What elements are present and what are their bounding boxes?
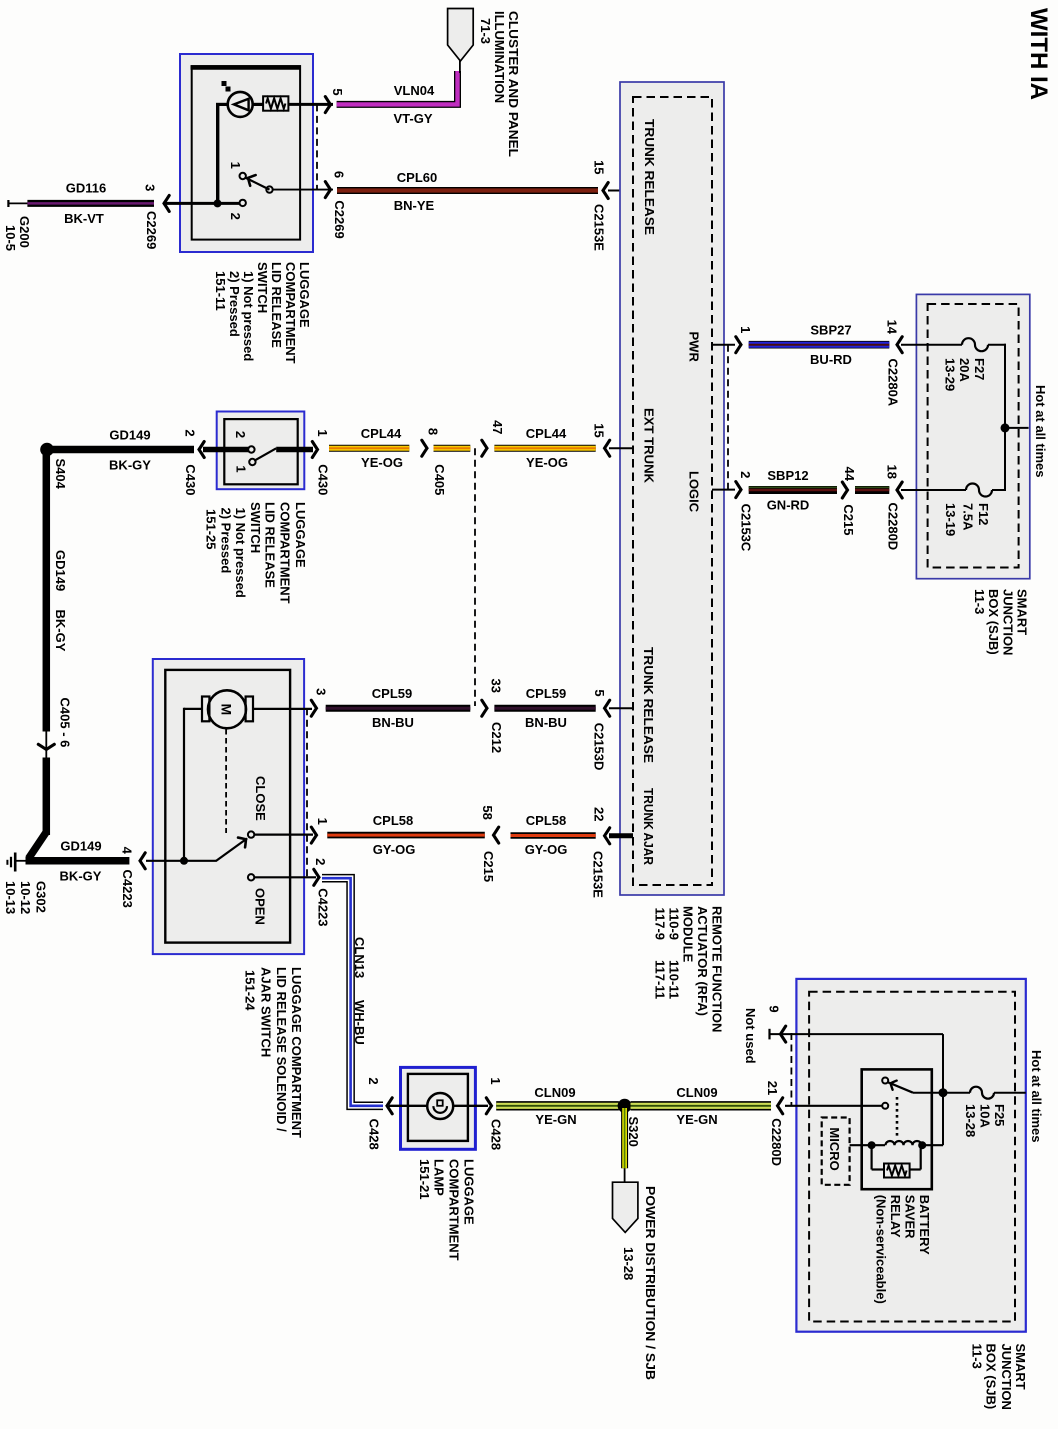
svg-text:C2280D: C2280D bbox=[886, 503, 901, 551]
connector C2280D dashed line bbox=[790, 1033, 792, 1105]
svg-text:2) Pressed: 2) Pressed bbox=[219, 508, 234, 574]
svg-text:TRUNK RELEASE: TRUNK RELEASE bbox=[641, 647, 656, 763]
fuse F12 bbox=[966, 484, 992, 497]
svg-text:SMART: SMART bbox=[1015, 589, 1030, 635]
svg-text:C4223: C4223 bbox=[316, 888, 331, 926]
svg-text:GD149: GD149 bbox=[53, 550, 68, 591]
wire CPL44 YE-OG seg1 bbox=[329, 445, 409, 452]
svg-text:1) Not pressed: 1) Not pressed bbox=[241, 271, 256, 361]
svg-text:CLN09: CLN09 bbox=[676, 1085, 717, 1100]
ajar switch blade bbox=[216, 839, 247, 862]
svg-text:MICRO: MICRO bbox=[827, 1127, 842, 1170]
svg-text:G200: G200 bbox=[17, 216, 32, 248]
not used internal drop bbox=[942, 1034, 944, 1093]
svg-text:YE-OG: YE-OG bbox=[361, 455, 403, 470]
svg-text:BATTERY: BATTERY bbox=[917, 1195, 932, 1255]
contact pin 1 bbox=[249, 459, 255, 465]
svg-text:WITH IA: WITH IA bbox=[1025, 8, 1052, 100]
svg-text:GD116: GD116 bbox=[66, 181, 106, 196]
switch internal lead bbox=[203, 447, 249, 453]
svg-text:GY-OG: GY-OG bbox=[525, 842, 568, 857]
luggage compartment lamp box bbox=[401, 1067, 476, 1149]
svg-text:CPL44: CPL44 bbox=[361, 426, 402, 441]
svg-text:LUGGAGE COMPARTMENT: LUGGAGE COMPARTMENT bbox=[289, 967, 304, 1138]
svg-text:BK-GY: BK-GY bbox=[53, 610, 68, 652]
relay mechanical dotted link bbox=[896, 1097, 899, 1136]
svg-text:LAMP: LAMP bbox=[432, 1159, 447, 1196]
arrow pin 3 bbox=[164, 195, 169, 211]
wire CPL59 BN-BU seg2 bbox=[494, 705, 595, 712]
arrow C430 pin 1 bbox=[312, 442, 317, 458]
remote function actuator RFA module box bbox=[620, 82, 724, 895]
svg-text:BN-BU: BN-BU bbox=[372, 715, 414, 730]
svg-text:2) Pressed: 2) Pressed bbox=[227, 271, 242, 337]
arrow lamp pin 1 bbox=[486, 1098, 491, 1114]
motor M bbox=[184, 708, 203, 710]
svg-text:14: 14 bbox=[885, 320, 900, 335]
relay switched line bbox=[913, 1092, 970, 1094]
svg-text:VLN04: VLN04 bbox=[394, 83, 435, 98]
svg-text:2: 2 bbox=[228, 213, 243, 220]
svg-text:BN-BU: BN-BU bbox=[525, 715, 567, 730]
wire CLN09 YE-GN seg2 bbox=[631, 1101, 772, 1110]
svg-text:11-3: 11-3 bbox=[972, 589, 987, 614]
svg-text:C215: C215 bbox=[481, 851, 496, 882]
svg-text:GN-RD: GN-RD bbox=[767, 498, 810, 513]
svg-text:C2153C: C2153C bbox=[739, 504, 754, 552]
fuse F25 bbox=[970, 1087, 994, 1099]
svg-text:YE-GN: YE-GN bbox=[535, 1112, 576, 1127]
switch common pin 2 bbox=[163, 202, 240, 205]
svg-text:CPL60: CPL60 bbox=[397, 170, 437, 185]
off-page connector cluster illumination bbox=[459, 59, 461, 73]
wire CLN13 WH-BU bbox=[322, 878, 383, 1106]
svg-text:VT-GY: VT-GY bbox=[393, 111, 432, 126]
svg-text:1: 1 bbox=[315, 429, 330, 436]
svg-text:F25: F25 bbox=[992, 1104, 1007, 1126]
svg-text:110-9: 110-9 bbox=[667, 908, 682, 941]
svg-text:S320: S320 bbox=[626, 1117, 641, 1147]
arrow pin 6 bbox=[325, 182, 330, 198]
svg-text:CPL59: CPL59 bbox=[372, 686, 412, 701]
arrow solenoid pin 4 bbox=[140, 853, 145, 869]
svg-text:13-19: 13-19 bbox=[943, 503, 958, 536]
svg-text:EXT TRUNK: EXT TRUNK bbox=[642, 408, 657, 484]
junction S320 bbox=[618, 1099, 632, 1113]
arrow module pin 5 bbox=[605, 700, 610, 716]
wire internal lamp feed bbox=[216, 103, 219, 205]
switch contact pin 1 bbox=[240, 173, 246, 179]
svg-text:SBP12: SBP12 bbox=[767, 468, 808, 483]
svg-text:F27: F27 bbox=[972, 358, 987, 380]
arrow inline C215 pin 58 bbox=[494, 827, 499, 843]
svg-text:2: 2 bbox=[738, 471, 753, 478]
svg-text:LUGGAGE: LUGGAGE bbox=[293, 502, 308, 568]
svg-text:CPL59: CPL59 bbox=[526, 686, 566, 701]
svg-text:LID RELEASE: LID RELEASE bbox=[269, 262, 284, 348]
fuse F27 bbox=[962, 338, 988, 351]
wire GD116 bbox=[27, 200, 154, 207]
svg-text:C430: C430 bbox=[183, 464, 198, 495]
wire GD149 BK-GY top bbox=[46, 446, 194, 454]
svg-text:YE-OG: YE-OG bbox=[526, 455, 568, 470]
svg-text:151-21: 151-21 bbox=[417, 1159, 432, 1199]
inline connector C405 pin 6 arrow bbox=[38, 744, 54, 749]
svg-text:G302: G302 bbox=[34, 881, 49, 913]
arrow inline C212 pin 33 bbox=[482, 700, 487, 716]
wire SBP12 GN-RD seg1 bbox=[749, 486, 837, 494]
svg-text:GD149: GD149 bbox=[60, 839, 101, 854]
svg-text:151-25: 151-25 bbox=[204, 509, 219, 549]
svg-text:15: 15 bbox=[592, 160, 607, 174]
svg-text:C2280A: C2280A bbox=[886, 359, 901, 407]
smart junction box upper bbox=[916, 294, 1029, 578]
svg-text:CLOSE: CLOSE bbox=[253, 776, 268, 821]
svg-text:11-3: 11-3 bbox=[970, 1344, 985, 1369]
svg-text:71-3: 71-3 bbox=[478, 18, 493, 44]
wire SBP12 GN-RD seg2 bbox=[855, 486, 889, 494]
switch blade bbox=[245, 178, 270, 190]
relay suppression resistor bbox=[870, 1145, 872, 1169]
svg-text:COMPARTMENT: COMPARTMENT bbox=[447, 1159, 462, 1261]
svg-text:9: 9 bbox=[767, 1005, 782, 1012]
svg-text:GY-OG: GY-OG bbox=[373, 842, 416, 857]
svg-text:2: 2 bbox=[233, 431, 248, 438]
svg-text:C215: C215 bbox=[841, 504, 856, 535]
arrow SJB pin 21 bbox=[778, 1098, 783, 1114]
svg-text:C2153D: C2153D bbox=[592, 723, 607, 771]
svg-text:CPL44: CPL44 bbox=[526, 426, 567, 441]
svg-text:1: 1 bbox=[738, 326, 753, 333]
arrow SJB pin 14 bbox=[897, 337, 902, 353]
svg-text:151-24: 151-24 bbox=[243, 970, 258, 1011]
svg-text:C2280D: C2280D bbox=[769, 1118, 784, 1166]
module LOGIC pin 2 lead bbox=[712, 489, 735, 491]
battery saver relay box bbox=[862, 1069, 932, 1189]
svg-text:2: 2 bbox=[183, 429, 198, 436]
lamp symbol bbox=[427, 1093, 453, 1119]
fuse F27 lead bbox=[901, 344, 962, 346]
svg-text:JUNCTION: JUNCTION bbox=[999, 1344, 1014, 1410]
svg-text:C4223: C4223 bbox=[120, 870, 135, 908]
svg-text:Not used: Not used bbox=[743, 1008, 758, 1064]
svg-text:BK-VT: BK-VT bbox=[64, 211, 104, 226]
connector C2269 dashed line bbox=[316, 104, 318, 189]
svg-text:10-5: 10-5 bbox=[3, 225, 18, 251]
arrow lamp pin 2 bbox=[387, 1098, 392, 1114]
arrow solenoid pin 3 bbox=[311, 700, 316, 716]
solenoid common lead bbox=[146, 860, 217, 862]
smart junction box lower bbox=[796, 979, 1025, 1332]
svg-text:LID RELEASE SOLENOID /: LID RELEASE SOLENOID / bbox=[274, 967, 289, 1132]
arrow module pin 15 bbox=[603, 183, 608, 199]
wire CLN09 to power distribution bbox=[621, 1105, 628, 1168]
svg-text:TRUNK AJAR: TRUNK AJAR bbox=[641, 788, 656, 866]
svg-text:2: 2 bbox=[366, 1077, 381, 1084]
svg-text:13-28: 13-28 bbox=[621, 1247, 636, 1280]
arrow inline C215 pin 44 bbox=[842, 482, 847, 498]
svg-text:21: 21 bbox=[765, 1081, 780, 1095]
svg-text:RELAY: RELAY bbox=[888, 1195, 903, 1238]
wire lamp to pin 5 bbox=[288, 103, 333, 106]
arrow pin 47 bbox=[482, 440, 487, 456]
svg-text:SMART: SMART bbox=[1013, 1344, 1028, 1390]
svg-text:JUNCTION: JUNCTION bbox=[1001, 589, 1016, 655]
arrow C430 pin 2 bbox=[199, 442, 204, 458]
svg-text:18: 18 bbox=[885, 464, 900, 478]
svg-text:ACTUATOR (RFA): ACTUATOR (RFA) bbox=[695, 906, 710, 1016]
arrow pin 5 bbox=[325, 97, 330, 113]
svg-text:LUGGAGE: LUGGAGE bbox=[462, 1159, 477, 1225]
wire SBP27 BU-RD bbox=[749, 341, 890, 349]
svg-text:4: 4 bbox=[120, 847, 135, 855]
svg-text:CPL58: CPL58 bbox=[526, 813, 566, 828]
svg-text:C405: C405 bbox=[432, 464, 447, 495]
svg-text:C430: C430 bbox=[315, 464, 330, 495]
svg-text:C428: C428 bbox=[488, 1119, 503, 1150]
battery feed line bbox=[1004, 344, 1006, 491]
svg-text:C2153E: C2153E bbox=[591, 851, 606, 898]
switch blade C430 bbox=[255, 448, 276, 460]
svg-text:BOX (SJB): BOX (SJB) bbox=[986, 589, 1001, 655]
svg-text:F12: F12 bbox=[976, 503, 991, 525]
svg-text:MODULE: MODULE bbox=[681, 906, 696, 963]
svg-text:1) Not pressed: 1) Not pressed bbox=[233, 508, 248, 598]
svg-text:1: 1 bbox=[315, 818, 330, 825]
relay blade bbox=[888, 1082, 913, 1092]
ground G200 stub bbox=[7, 200, 9, 207]
mechanical link dashed bbox=[225, 729, 227, 833]
svg-text:COMPARTMENT: COMPARTMENT bbox=[278, 502, 293, 604]
arrow solenoid pin 1 bbox=[311, 827, 316, 843]
switch contact to pin 6 bbox=[266, 186, 272, 192]
svg-text:C405 - 6: C405 - 6 bbox=[58, 698, 73, 748]
relay output contact bbox=[882, 1103, 888, 1109]
svg-text:3: 3 bbox=[143, 184, 158, 191]
svg-text:C428: C428 bbox=[366, 1119, 381, 1150]
luggage compartment lid release switch box bbox=[180, 54, 313, 252]
off-page connector power distribution bbox=[613, 1182, 638, 1232]
svg-text:PWR: PWR bbox=[687, 332, 702, 363]
svg-text:5: 5 bbox=[592, 689, 607, 696]
svg-text:GD149: GD149 bbox=[109, 428, 150, 443]
svg-text:117-9: 117-9 bbox=[653, 908, 668, 941]
svg-text:Hot at all times: Hot at all times bbox=[1029, 1050, 1044, 1142]
wire CPL58 GY-OG seg2 bbox=[511, 832, 596, 839]
svg-text:C2269: C2269 bbox=[144, 211, 159, 249]
svg-text:(Non-serviceable): (Non-serviceable) bbox=[874, 1195, 889, 1304]
illumination lamp bbox=[228, 92, 253, 117]
svg-text:SBP27: SBP27 bbox=[810, 323, 851, 338]
svg-text:10-12: 10-12 bbox=[18, 881, 33, 914]
svg-text:117-11: 117-11 bbox=[653, 960, 668, 999]
svg-text:POWER DISTRIBUTION / SJB: POWER DISTRIBUTION / SJB bbox=[643, 1186, 658, 1380]
svg-text:AJAR SWITCH: AJAR SWITCH bbox=[259, 967, 274, 1057]
svg-text:47: 47 bbox=[490, 420, 505, 434]
relay coil bbox=[850, 1144, 885, 1146]
arrow solenoid pin 2 bbox=[314, 869, 319, 885]
svg-text:44: 44 bbox=[842, 466, 857, 481]
svg-text:1: 1 bbox=[234, 465, 249, 472]
wire CPL58 GY-OG seg1 bbox=[327, 832, 485, 839]
fuse F12 lead bbox=[901, 489, 966, 491]
wire GD149 BK-GY bottom bbox=[26, 857, 130, 865]
svg-text:COMPARTMENT: COMPARTMENT bbox=[283, 262, 298, 364]
ground G302 bbox=[14, 853, 17, 872]
svg-text:BK-GY: BK-GY bbox=[60, 869, 102, 884]
arrow module pin 15 ext trunk bbox=[605, 440, 610, 456]
wire GD149 vertical upper bbox=[43, 452, 51, 732]
svg-text:2: 2 bbox=[313, 858, 328, 865]
svg-text:33: 33 bbox=[488, 678, 503, 692]
wire VLN04 VT-GY bbox=[337, 71, 458, 104]
svg-text:C2153E: C2153E bbox=[592, 204, 607, 251]
svg-text:58: 58 bbox=[480, 805, 495, 819]
svg-text:CPL58: CPL58 bbox=[373, 813, 413, 828]
svg-text:LOGIC: LOGIC bbox=[687, 471, 702, 513]
svg-text:LUGGAGE: LUGGAGE bbox=[297, 262, 312, 328]
svg-text:SWITCH: SWITCH bbox=[248, 502, 263, 553]
svg-text:1: 1 bbox=[488, 1077, 503, 1084]
module PWR pin 1 lead bbox=[712, 344, 735, 346]
not used pin 9 bbox=[768, 1029, 770, 1040]
connector C4223 dashed line bbox=[306, 708, 308, 877]
svg-text:BOX (SJB): BOX (SJB) bbox=[984, 1344, 999, 1410]
svg-text:6: 6 bbox=[332, 171, 347, 178]
svg-text:REMOTE FUNCTION: REMOTE FUNCTION bbox=[710, 906, 725, 1032]
motor return lead bbox=[183, 708, 185, 861]
svg-text:SAVER: SAVER bbox=[903, 1195, 918, 1239]
svg-text:15: 15 bbox=[592, 423, 607, 437]
wire CPL59 BN-BU seg1 bbox=[326, 705, 471, 712]
wire CLN09 YE-GN seg1 bbox=[496, 1101, 619, 1110]
svg-text:SWITCH: SWITCH bbox=[255, 262, 270, 313]
arrow module pin 22 bbox=[605, 828, 610, 844]
connector C2153C dashed line bbox=[727, 345, 729, 490]
svg-text:22: 22 bbox=[592, 807, 607, 821]
luggage compartment lid release switch box 151-25 bbox=[217, 412, 305, 490]
wire GD149 vertical lower bbox=[43, 758, 51, 836]
svg-text:BN-YE: BN-YE bbox=[394, 198, 435, 213]
contact CLOSE bbox=[248, 831, 254, 837]
svg-text:BK-GY: BK-GY bbox=[109, 458, 151, 473]
svg-text:WH-BU: WH-BU bbox=[352, 1000, 367, 1045]
svg-text:3: 3 bbox=[314, 688, 329, 695]
junction S404 bbox=[40, 443, 54, 457]
resistor in switch bbox=[252, 103, 263, 106]
svg-text:10A: 10A bbox=[978, 1104, 993, 1128]
svg-text:C212: C212 bbox=[489, 722, 504, 753]
svg-text:CLN09: CLN09 bbox=[534, 1085, 575, 1100]
svg-text:S404: S404 bbox=[53, 459, 68, 490]
svg-text:151-11: 151-11 bbox=[213, 271, 228, 311]
wire CPL44 YE-OG seg3 bbox=[494, 445, 595, 452]
svg-text:YE-GN: YE-GN bbox=[676, 1112, 717, 1127]
wire CPL60 BN-YE bbox=[337, 187, 598, 194]
dashed inline connector line C405-C212 bbox=[474, 448, 476, 706]
wire CPL44 YE-OG seg2 bbox=[434, 445, 471, 452]
svg-text:20A: 20A bbox=[957, 358, 972, 382]
svg-text:OPEN: OPEN bbox=[253, 888, 268, 925]
svg-text:ILLUMINATION: ILLUMINATION bbox=[492, 11, 507, 103]
relay switch pivot bbox=[882, 1078, 888, 1084]
svg-text:13-29: 13-29 bbox=[943, 358, 958, 391]
svg-text:1: 1 bbox=[228, 162, 243, 169]
lamp feed lines bbox=[389, 1105, 428, 1107]
MICRO box bbox=[822, 1118, 850, 1185]
svg-text:CLN13: CLN13 bbox=[352, 937, 367, 978]
arrow SJB pin 18 bbox=[897, 482, 902, 498]
svg-text:Hot at all times: Hot at all times bbox=[1033, 385, 1048, 477]
svg-text:M: M bbox=[219, 703, 235, 715]
contact pin 2 bbox=[248, 446, 254, 452]
svg-text:7.5A: 7.5A bbox=[961, 503, 976, 531]
svg-text:13-28: 13-28 bbox=[963, 1104, 978, 1137]
svg-text:5: 5 bbox=[330, 88, 345, 95]
svg-text:110-11: 110-11 bbox=[667, 960, 682, 999]
svg-text:C2269: C2269 bbox=[332, 200, 347, 238]
svg-text:8: 8 bbox=[426, 428, 441, 435]
contact OPEN bbox=[248, 874, 254, 880]
arrow inline C405 pin 8 bbox=[422, 440, 427, 456]
svg-text:BU-RD: BU-RD bbox=[810, 352, 852, 367]
svg-text:TRUNK RELEASE: TRUNK RELEASE bbox=[642, 119, 657, 235]
svg-text:CLUSTER AND PANEL: CLUSTER AND PANEL bbox=[506, 11, 521, 157]
svg-text:10-13: 10-13 bbox=[3, 881, 18, 914]
luggage compartment lid release solenoid ajar switch box bbox=[153, 659, 304, 954]
svg-text:LID RELEASE: LID RELEASE bbox=[263, 502, 278, 588]
